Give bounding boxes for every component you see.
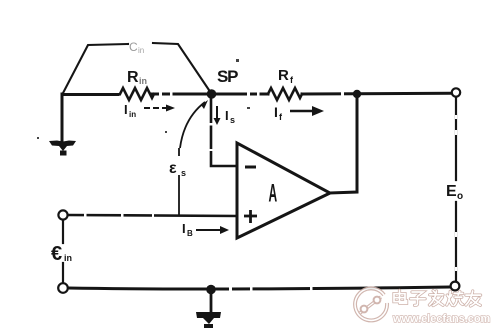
svg-text:€: € bbox=[51, 243, 62, 265]
svg-text:s: s bbox=[181, 168, 186, 178]
svg-text:R: R bbox=[127, 69, 139, 86]
svg-text:in: in bbox=[64, 253, 72, 263]
svg-text:SP: SP bbox=[217, 67, 238, 86]
svg-text:o: o bbox=[457, 191, 463, 202]
svg-text:R: R bbox=[278, 67, 289, 84]
svg-text:I: I bbox=[274, 104, 278, 120]
svg-text:I: I bbox=[124, 102, 128, 117]
svg-text:I: I bbox=[225, 108, 229, 123]
svg-text:A: A bbox=[269, 180, 278, 208]
svg-text:www.elecfans.com: www.elecfans.com bbox=[392, 313, 490, 325]
svg-text:s: s bbox=[230, 115, 235, 125]
svg-text:I: I bbox=[182, 221, 186, 236]
svg-text:f: f bbox=[290, 75, 294, 85]
svg-text:B: B bbox=[187, 229, 193, 238]
svg-text:in: in bbox=[129, 110, 136, 119]
svg-text:in: in bbox=[139, 76, 147, 86]
svg-text:f: f bbox=[279, 112, 283, 122]
svg-text:ε: ε bbox=[169, 160, 177, 177]
svg-text:in: in bbox=[138, 46, 144, 55]
svg-text:E: E bbox=[446, 183, 457, 200]
svg-text:C: C bbox=[129, 40, 138, 54]
